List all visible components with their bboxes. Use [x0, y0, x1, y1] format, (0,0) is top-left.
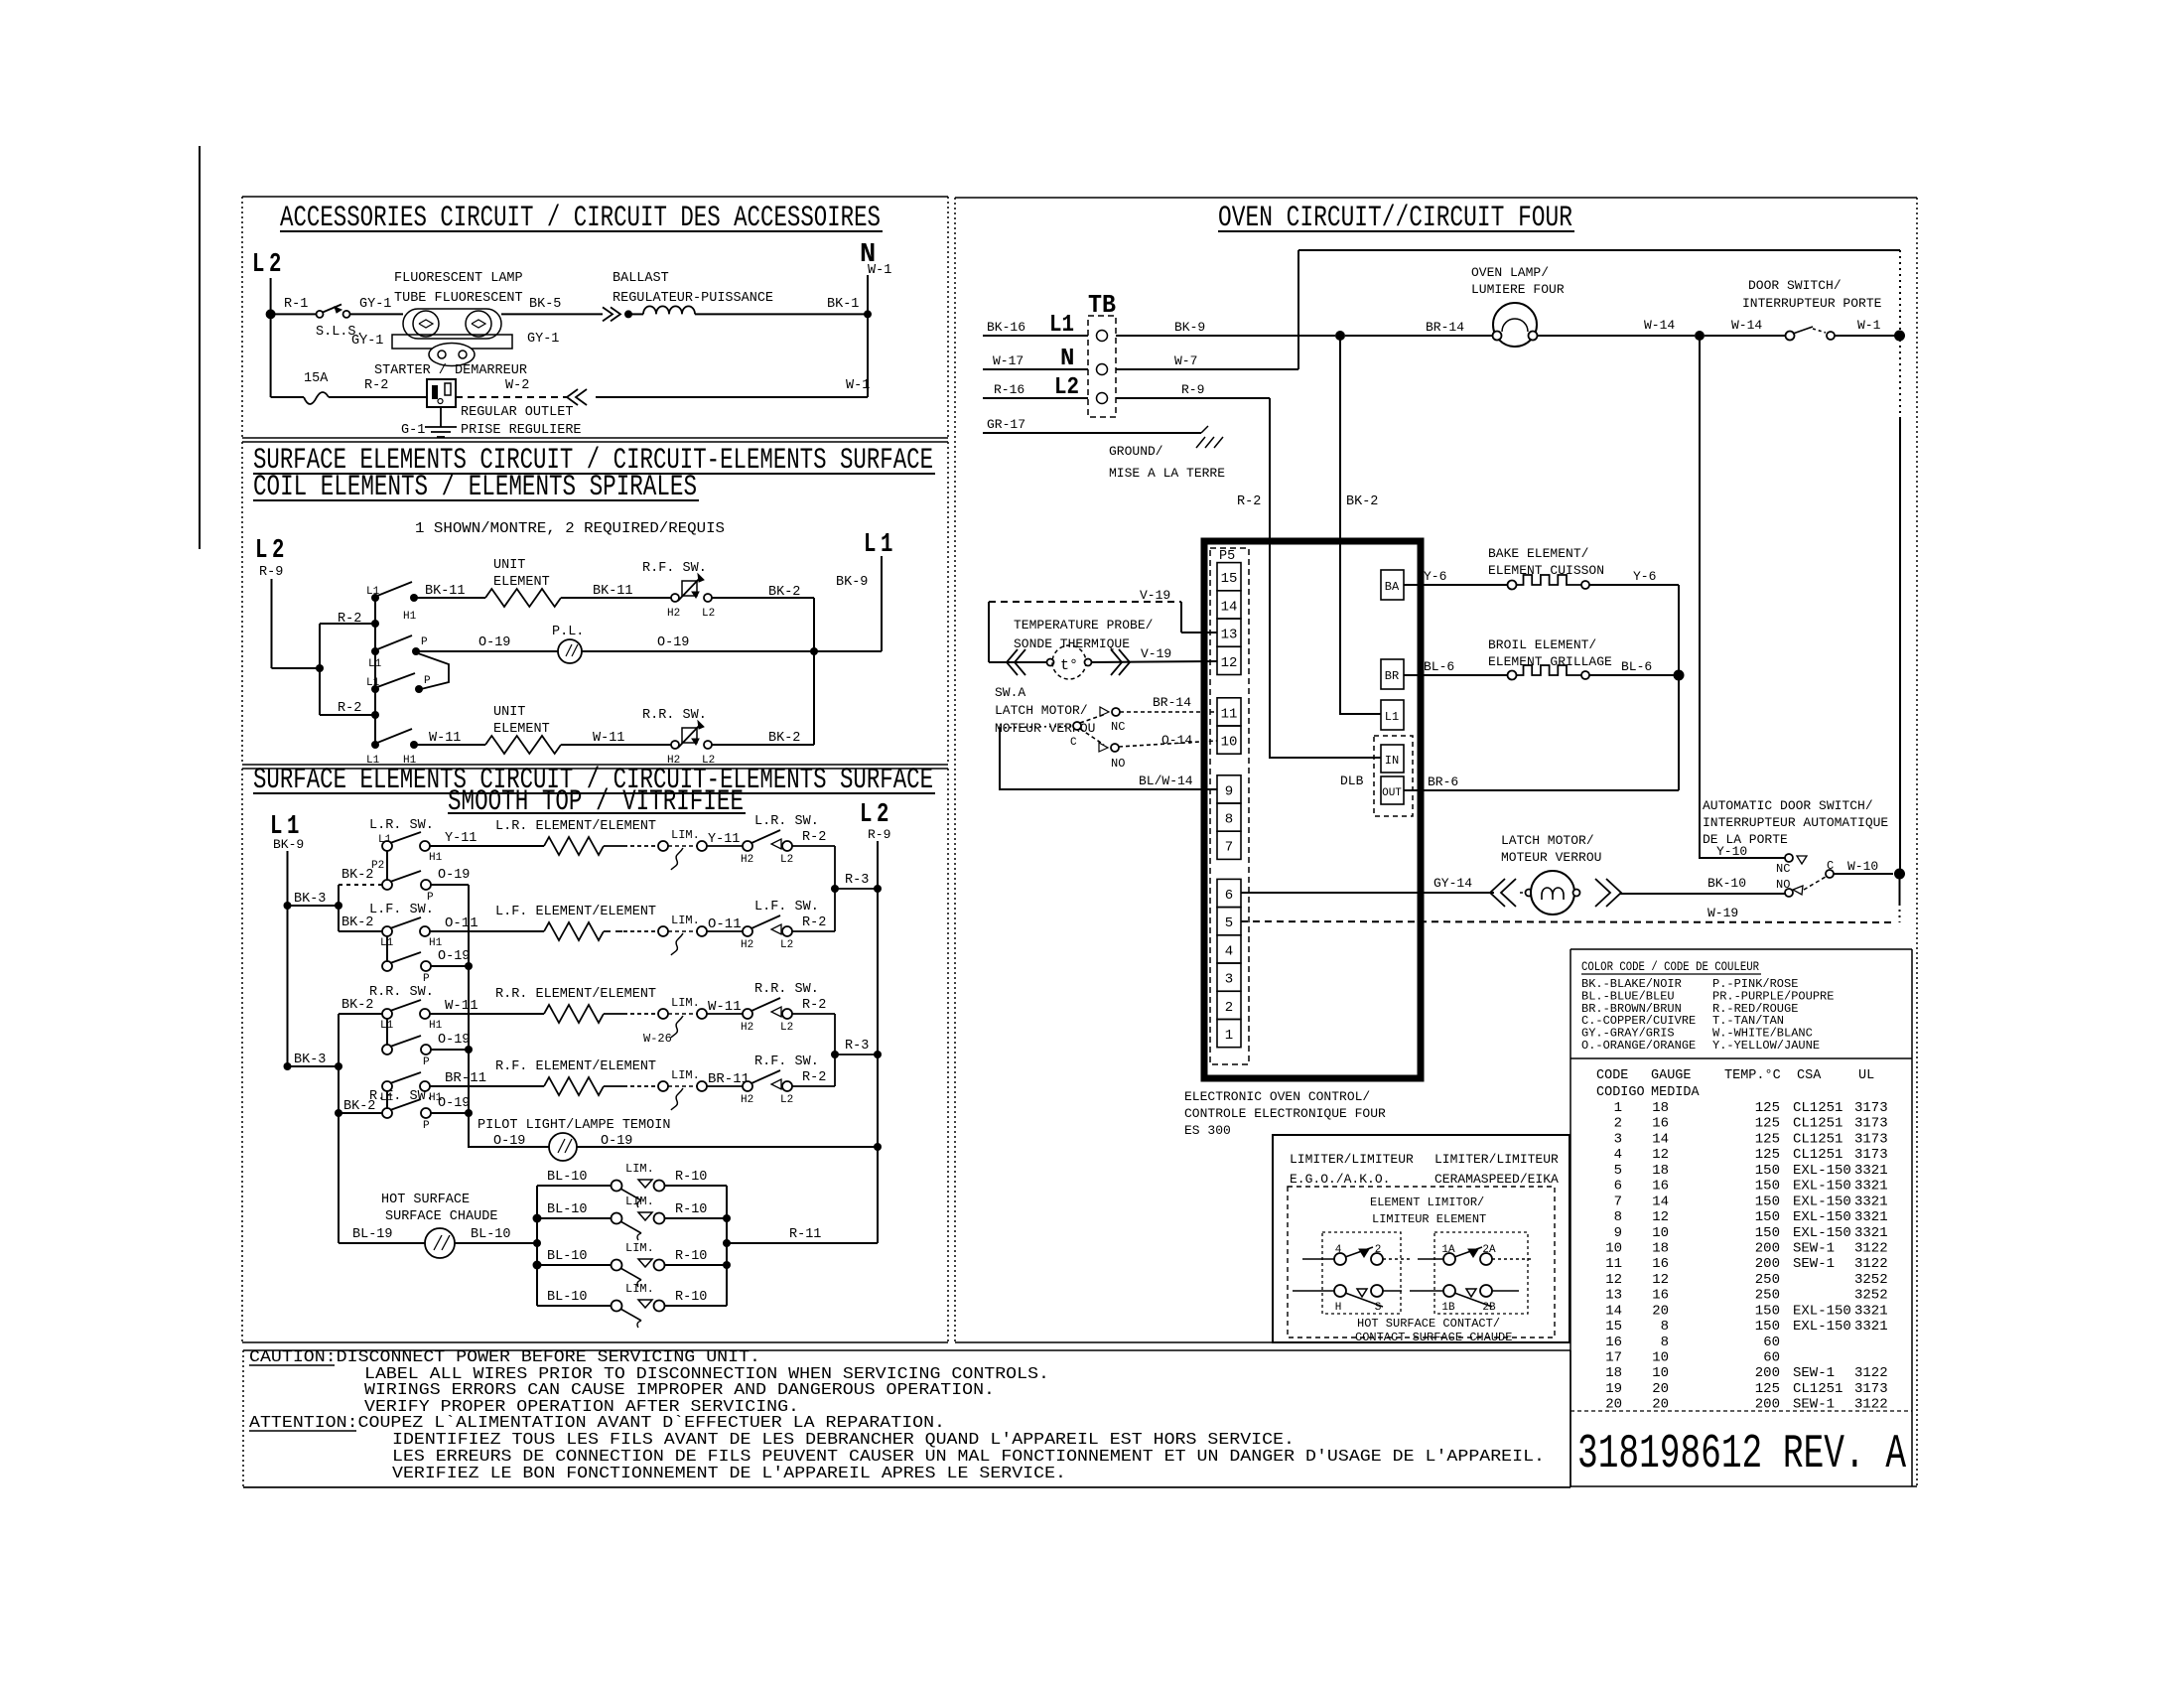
regular outlet box	[427, 379, 456, 407]
svg-text:C: C	[1827, 859, 1834, 873]
junction dot ladder left feed	[533, 1239, 541, 1247]
svg-text:13: 13	[1605, 1288, 1622, 1304]
pin 13 box	[1217, 619, 1241, 646]
limiter R.R.	[658, 1009, 668, 1019]
svg-text:O-19: O-19	[601, 1134, 632, 1149]
junction dot W-10	[1894, 869, 1905, 880]
svg-text:G-1: G-1	[401, 423, 425, 438]
svg-text:L2: L2	[1054, 374, 1079, 401]
svg-text:NC: NC	[1776, 862, 1790, 876]
svg-text:2A: 2A	[1482, 1244, 1496, 1256]
SW.A pivot	[1073, 722, 1081, 730]
wire R-11	[727, 1242, 878, 1244]
wire lamp to arrow	[501, 313, 603, 315]
svg-text:12: 12	[1605, 1272, 1622, 1288]
wire BL-10 to ladder	[455, 1242, 537, 1244]
SW.A blade NO	[1080, 729, 1104, 745]
dashed link to motor	[1520, 892, 1529, 894]
limiter switch EIKA top	[1418, 1258, 1444, 1260]
svg-text:L.R. SW.: L.R. SW.	[369, 818, 434, 833]
svg-text:R-2: R-2	[1237, 494, 1261, 509]
wire L2 bus (smooth)	[877, 841, 879, 1243]
svg-text:SONDE THERMIQUE: SONDE THERMIQUE	[1014, 636, 1130, 651]
wire R.F. BK-2 (at pilot level)	[339, 1112, 382, 1114]
wire main row L2 to switch	[271, 313, 316, 315]
svg-text:3173: 3173	[1854, 1116, 1888, 1132]
underline ATTENTION	[249, 1430, 356, 1432]
svg-text:10: 10	[1652, 1350, 1669, 1366]
wire BA to bake element	[1404, 584, 1508, 586]
svg-text:P: P	[424, 675, 431, 687]
switch R.F. blade	[390, 1072, 421, 1083]
svg-text:Y.-YELLOW/JAUNE: Y.-YELLOW/JAUNE	[1712, 1039, 1820, 1053]
svg-text:R.F. ELEMENT/ELEMENT: R.F. ELEMENT/ELEMENT	[495, 1059, 656, 1074]
svg-text:SEW-1: SEW-1	[1793, 1365, 1835, 1381]
ladder row 4 left wire	[537, 1305, 612, 1307]
svg-text:BK-11: BK-11	[593, 584, 633, 599]
svg-text:3122: 3122	[1854, 1256, 1888, 1272]
svg-text:EXL-150: EXL-150	[1793, 1209, 1851, 1225]
switch R.F. right blade	[751, 1070, 780, 1083]
svg-text:BL-6: BL-6	[1424, 659, 1454, 674]
arrow << (latch)	[1490, 879, 1516, 907]
svg-text:L2: L2	[252, 250, 286, 280]
svg-text:18: 18	[1652, 1163, 1669, 1179]
switch L.R. right L2	[782, 841, 792, 851]
svg-text:20: 20	[1652, 1303, 1669, 1319]
wire bake return drop	[1678, 585, 1680, 675]
wire return to N	[596, 396, 868, 398]
svg-text:REGULATEUR-PUISSANCE: REGULATEUR-PUISSANCE	[613, 291, 773, 306]
switch blade 4	[377, 729, 412, 743]
svg-text:SEW-1: SEW-1	[1793, 1256, 1835, 1272]
svg-text:L1: L1	[366, 677, 380, 689]
pin 6 box	[1217, 879, 1241, 907]
temperature probe	[1047, 659, 1054, 666]
svg-text:L.R. SW.: L.R. SW.	[754, 814, 819, 829]
pilot lamp P.L.	[558, 639, 582, 663]
svg-text:7: 7	[1614, 1194, 1622, 1209]
svg-text:150: 150	[1755, 1163, 1780, 1179]
svg-text:W-2: W-2	[505, 378, 529, 393]
wire W-1 drop	[1899, 417, 1901, 874]
wire O-19 bus	[469, 885, 558, 1147]
switch blade 1	[377, 582, 412, 596]
junction dot after arrow	[624, 310, 632, 318]
svg-text:EXL-150: EXL-150	[1793, 1163, 1851, 1179]
switch L.R. right blade	[751, 830, 780, 843]
svg-text:14: 14	[1652, 1194, 1669, 1209]
wire L.F. pilot to bus	[431, 965, 469, 967]
pin 10 box	[1217, 726, 1241, 754]
svg-text:OVEN CIRCUIT//CIRCUIT FOUR: OVEN CIRCUIT//CIRCUIT FOUR	[1218, 202, 1572, 235]
svg-text:R-10: R-10	[675, 1170, 707, 1185]
arrow << on return wire	[567, 389, 587, 405]
svg-text:O-19: O-19	[493, 1134, 525, 1149]
pin 5 box	[1217, 908, 1241, 935]
wire bus to BL-19 row	[338, 1113, 340, 1243]
svg-text:R.R. SW.: R.R. SW.	[369, 985, 434, 1000]
broil element	[1508, 671, 1517, 680]
svg-text:R-1: R-1	[284, 297, 308, 312]
svg-text:3321: 3321	[1854, 1194, 1888, 1209]
svg-text:R.R. ELEMENT/ELEMENT: R.R. ELEMENT/ELEMENT	[495, 987, 656, 1002]
svg-text:CL1251: CL1251	[1793, 1131, 1843, 1147]
wire R-2 riser	[1270, 398, 1381, 758]
switch R.R. right blade	[751, 998, 780, 1011]
svg-text:1 SHOWN/MONTRE, 2 REQUIRED/REQ: 1 SHOWN/MONTRE, 2 REQUIRED/REQUIS	[415, 520, 725, 537]
TB terminal L1	[1097, 331, 1108, 342]
wire top return run	[1298, 249, 1900, 251]
svg-text:LATCH MOTOR/: LATCH MOTOR/	[1501, 833, 1594, 848]
wire smooth left bus top	[338, 885, 340, 931]
starter ellipse with terminals	[429, 344, 475, 366]
wire pilot lamp to bus	[582, 650, 882, 652]
svg-text:ELECTRONIC OVEN CONTROL/: ELECTRONIC OVEN CONTROL/	[1184, 1089, 1370, 1104]
svg-text:CONTROLE ELECTRONIQUE FOUR: CONTROLE ELECTRONIQUE FOUR	[1184, 1106, 1386, 1121]
svg-text:17: 17	[1605, 1350, 1622, 1366]
svg-text:BK-9: BK-9	[1174, 320, 1205, 335]
svg-text:O-19: O-19	[478, 635, 510, 650]
svg-text:11: 11	[1221, 706, 1238, 722]
svg-text:R.R. SW.: R.R. SW.	[754, 982, 819, 997]
switch L.F. H1 contact	[420, 926, 430, 936]
svg-text:2: 2	[1375, 1244, 1382, 1256]
svg-text:O-11: O-11	[445, 915, 478, 931]
ground symbol (outlet)	[440, 407, 442, 427]
wire R.F. pilot to bus	[431, 1112, 469, 1114]
wire R.R. pilot to bus	[431, 1049, 469, 1051]
wire pilot lamp to L2 bus	[577, 1146, 878, 1148]
switch R.F. H1 contact	[420, 1081, 430, 1091]
junction dot R-3 bottom bus	[874, 1051, 882, 1058]
svg-text:Y-6: Y-6	[1424, 569, 1446, 584]
svg-text:TEMPERATURE PROBE/: TEMPERATURE PROBE/	[1014, 618, 1154, 633]
svg-text:H1: H1	[403, 611, 417, 623]
svg-text:NC: NC	[1111, 720, 1125, 734]
junction dot BK-3 top bus	[335, 902, 342, 910]
svg-text:9: 9	[1614, 1225, 1622, 1241]
wire R-3 stub vertical bottom	[834, 1014, 836, 1086]
svg-text:R-16: R-16	[994, 382, 1024, 397]
svg-text:LIM.: LIM.	[625, 1162, 654, 1176]
switch pivot dot 4 (L1)	[371, 741, 379, 749]
relay box L1	[1381, 700, 1404, 730]
ladder row 3 right wire	[664, 1264, 727, 1266]
svg-text:BK-5: BK-5	[529, 297, 561, 312]
svg-text:LIM.: LIM.	[625, 1195, 654, 1208]
svg-text:BK-2: BK-2	[341, 868, 373, 883]
svg-text:CODIGO: CODIGO	[1596, 1085, 1645, 1100]
svg-text:H2: H2	[741, 854, 753, 866]
svg-text:O-19: O-19	[438, 868, 470, 883]
svg-text:EXL-150: EXL-150	[1793, 1303, 1851, 1319]
fluorescent lamp tube	[403, 309, 501, 339]
junction dot BK-2 riser	[1335, 331, 1345, 341]
element L.F.	[544, 922, 604, 940]
limiter L.R.	[658, 841, 668, 851]
svg-text:L2: L2	[780, 939, 793, 951]
svg-text:L.F. SW.: L.F. SW.	[754, 900, 819, 914]
svg-text:125: 125	[1755, 1381, 1780, 1397]
svg-text:3122: 3122	[1854, 1241, 1888, 1257]
svg-text:BK-2: BK-2	[341, 915, 373, 930]
svg-text:R-2: R-2	[802, 998, 826, 1013]
svg-text:14: 14	[1605, 1303, 1622, 1319]
switch R.F. pilot blade	[390, 1099, 421, 1110]
svg-text:R.F. SW.: R.F. SW.	[369, 1089, 434, 1104]
wire pivot link R.R.	[386, 1019, 388, 1045]
svg-text:AUTOMATIC DOOR SWITCH/: AUTOMATIC DOOR SWITCH/	[1703, 798, 1873, 813]
ladder row 2 right wire	[664, 1217, 727, 1219]
pin 11 box	[1217, 698, 1241, 726]
svg-text:BALLAST: BALLAST	[613, 271, 669, 286]
switch P2 contact	[421, 880, 431, 890]
svg-text:W-19: W-19	[1707, 906, 1738, 920]
svg-text:60: 60	[1763, 1335, 1780, 1350]
wire coil right bus	[813, 598, 815, 745]
element R.R.	[544, 1005, 604, 1023]
ladder row 2 left wire	[537, 1217, 612, 1219]
junction dot L2/main row	[266, 309, 276, 319]
svg-text:W-11: W-11	[593, 731, 624, 746]
wire broil element right	[1589, 674, 1674, 676]
svg-text:318198612 REV. A: 318198612 REV. A	[1577, 1428, 1906, 1481]
svg-text:BL-10: BL-10	[547, 1170, 588, 1185]
svg-text:8: 8	[1614, 1209, 1622, 1225]
switch L.R. right H2	[743, 841, 752, 851]
wire W-10	[1834, 873, 1893, 875]
svg-text:L2: L2	[780, 1094, 793, 1106]
junction dot BK-3 bottom	[284, 1062, 292, 1070]
pin 4 box	[1217, 935, 1241, 963]
triangle R.R. right	[771, 1007, 781, 1017]
svg-text:3321: 3321	[1854, 1179, 1888, 1195]
wire probe row right	[1092, 661, 1217, 662]
svg-text:BK-11: BK-11	[425, 584, 466, 599]
svg-text:LIM.: LIM.	[671, 828, 700, 842]
contact dot H1 top	[410, 594, 418, 602]
svg-text:C: C	[1070, 737, 1077, 749]
svg-text:BA: BA	[1385, 580, 1400, 594]
svg-text:L2: L2	[702, 608, 715, 620]
svg-text:BL-6: BL-6	[1621, 659, 1652, 674]
SW.A blade NC	[1080, 714, 1106, 723]
svg-text:BAKE ELEMENT/: BAKE ELEMENT/	[1488, 546, 1589, 561]
svg-text:GY-1: GY-1	[359, 297, 391, 312]
dashed wire W-19	[1241, 921, 1896, 922]
wire H1 to resistor (top)	[414, 597, 485, 599]
svg-text:R-10: R-10	[675, 1249, 707, 1264]
svg-text:EXL-150: EXL-150	[1793, 1179, 1851, 1195]
relay box IN	[1381, 745, 1404, 773]
svg-text:CL1251: CL1251	[1793, 1100, 1843, 1116]
wire coil left bus vertical	[319, 624, 321, 715]
switch R.R. H1 contact	[420, 1009, 430, 1019]
switch R.F. pilot pivot	[382, 1108, 392, 1118]
svg-text:L1: L1	[366, 586, 380, 598]
svg-text:R-2: R-2	[364, 378, 388, 393]
svg-text:W-26: W-26	[643, 1032, 672, 1046]
svg-text:NO: NO	[1776, 878, 1790, 892]
svg-text:LIMITER/LIMITEUR: LIMITER/LIMITEUR	[1290, 1152, 1414, 1167]
switch pivot dot 2	[371, 647, 379, 655]
svg-text:GR-17: GR-17	[987, 417, 1025, 432]
svg-text:H2: H2	[741, 939, 753, 951]
svg-text:ELEMENT: ELEMENT	[493, 722, 550, 737]
contact dot P (sw3)	[415, 685, 423, 693]
ladder row 4 right wire	[664, 1305, 727, 1307]
svg-text:8: 8	[1225, 812, 1233, 828]
svg-text:GROUND/: GROUND/	[1109, 444, 1163, 459]
ladder row 2 limiter switch	[612, 1213, 622, 1224]
wire R-3 stub vertical top	[834, 846, 836, 931]
svg-text:H1: H1	[429, 937, 443, 949]
svg-text:TB: TB	[1088, 290, 1116, 320]
limiter L.F.	[658, 926, 668, 936]
switch R.F. pivot	[382, 1081, 392, 1091]
svg-text:COIL ELEMENTS / ELEMENTS SPIRA: COIL ELEMENTS / ELEMENTS SPIRALES	[253, 471, 697, 504]
svg-text:8: 8	[1661, 1335, 1669, 1350]
wire element return drop	[1678, 675, 1680, 790]
svg-text:SURFACE CHAUDE: SURFACE CHAUDE	[385, 1209, 497, 1224]
wire N vertical	[867, 275, 869, 397]
switch R.R. blade	[390, 1000, 421, 1011]
svg-text:VERIFIEZ LE BON FONCTIONNEMENT: VERIFIEZ LE BON FONCTIONNEMENT DE L'APPA…	[392, 1465, 1066, 1483]
wire R.R. BK-2	[339, 1013, 382, 1015]
svg-text:10: 10	[1652, 1365, 1669, 1381]
junction dot R-3 top	[831, 885, 839, 893]
accessories box border	[242, 196, 948, 198]
junction dot ladder right feed	[723, 1239, 731, 1247]
svg-text:BR-14: BR-14	[1426, 320, 1464, 335]
svg-text:125: 125	[1755, 1100, 1780, 1116]
svg-text:CSA: CSA	[1797, 1068, 1822, 1083]
svg-text:200: 200	[1755, 1365, 1780, 1381]
svg-text:UL: UL	[1858, 1068, 1874, 1083]
svg-text:20: 20	[1652, 1381, 1669, 1397]
wire lower row left segment	[271, 396, 304, 398]
junction dot O-19 LF	[465, 962, 473, 970]
svg-text:LIM.: LIM.	[625, 1241, 654, 1255]
lamp holder rectangle	[392, 335, 512, 349]
svg-text:3321: 3321	[1854, 1303, 1888, 1319]
wire L.F. BK-2	[339, 930, 382, 932]
svg-text:5: 5	[1614, 1163, 1622, 1179]
wire R-3 stub top	[835, 888, 878, 890]
wire ballast to N	[695, 313, 868, 315]
svg-text:19: 19	[1605, 1381, 1622, 1397]
switch R.R. pilot pivot	[382, 1045, 392, 1055]
svg-text:STARTER / DEMARREUR: STARTER / DEMARREUR	[374, 363, 527, 378]
svg-text:18: 18	[1652, 1241, 1669, 1257]
svg-text:16: 16	[1652, 1179, 1669, 1195]
svg-text:3252: 3252	[1854, 1272, 1888, 1288]
ladder row 1 left wire	[537, 1185, 612, 1187]
pin 9 box	[1217, 775, 1241, 803]
svg-text:Y-10: Y-10	[1716, 844, 1747, 859]
svg-text:W-1: W-1	[868, 263, 891, 278]
wire arrow to ballast	[628, 313, 643, 315]
wire R-2 stub bottom	[320, 714, 375, 716]
svg-text:CL1251: CL1251	[1793, 1116, 1843, 1132]
svg-text:O-14: O-14	[1161, 733, 1192, 748]
svg-text:L.R. ELEMENT/ELEMENT: L.R. ELEMENT/ELEMENT	[495, 819, 656, 834]
switch R.R. pivot	[382, 1009, 392, 1019]
svg-text:t°: t°	[1060, 657, 1078, 674]
svg-text:OVEN LAMP/: OVEN LAMP/	[1471, 265, 1549, 280]
junction dot pilot/L2 bus	[874, 1143, 882, 1151]
wire limiter to H2 L.R.	[707, 845, 743, 847]
svg-text:P.L.: P.L.	[552, 625, 584, 639]
svg-text:3173: 3173	[1854, 1100, 1888, 1116]
wire L.F. L2 to corner	[792, 930, 835, 932]
svg-text:LUMIERE FOUR: LUMIERE FOUR	[1471, 282, 1565, 297]
svg-text:Y-6: Y-6	[1633, 569, 1656, 584]
switch pivot dot 1 (L1)	[371, 594, 379, 602]
wire W-14 to door switch	[1705, 335, 1785, 337]
svg-text:15A: 15A	[304, 371, 329, 386]
svg-text:200: 200	[1755, 1397, 1780, 1413]
wire P2 link	[386, 851, 388, 880]
wire pivot link R.F.	[386, 1091, 388, 1108]
wire BK-3 bottom	[288, 1065, 340, 1067]
contact dot P (sw2)	[412, 647, 420, 655]
junction dot N vertical	[864, 310, 872, 318]
svg-text:ELEMENT GRILLAGE: ELEMENT GRILLAGE	[1488, 654, 1612, 669]
svg-text:N: N	[1060, 346, 1074, 372]
limiter R.F.	[658, 1081, 668, 1091]
svg-text:ES 300: ES 300	[1184, 1123, 1231, 1138]
wire R-2 stub top	[320, 623, 375, 625]
svg-text:R-2: R-2	[802, 1070, 826, 1085]
auto door switch blade	[1804, 877, 1826, 890]
svg-text:LIM.: LIM.	[625, 1282, 654, 1296]
wire R-3 stub bottom	[835, 1054, 878, 1055]
switch L.R. H1 contact	[420, 841, 430, 851]
switch R.R. right H2	[743, 1009, 752, 1019]
svg-text:FLUORESCENT LAMP: FLUORESCENT LAMP	[394, 271, 523, 286]
junction dot R-3 bottom	[831, 1051, 839, 1058]
wire probe riser	[1180, 602, 1182, 633]
svg-text:BROIL ELEMENT/: BROIL ELEMENT/	[1488, 637, 1596, 652]
dashed divider above part number	[1570, 1410, 1912, 1412]
wire R.R. element to limiter	[604, 1013, 623, 1015]
wire L.F. H1 to element	[430, 930, 544, 932]
wire L.R. L2 to corner	[792, 845, 835, 847]
ground symbol (oven)	[1196, 426, 1223, 448]
fuse 15A	[304, 392, 329, 404]
wire probe row left	[989, 661, 1046, 663]
svg-text:BK-3: BK-3	[294, 892, 326, 907]
svg-text:15: 15	[1605, 1319, 1622, 1335]
svg-text:R-11: R-11	[789, 1227, 821, 1242]
svg-text:2: 2	[1614, 1116, 1622, 1132]
svg-text:1B: 1B	[1441, 1302, 1455, 1314]
wire W-1 below dot	[1899, 874, 1901, 904]
switch L.F. pivot	[382, 926, 392, 936]
dashed wire BK-2 to P2	[339, 884, 382, 886]
wire P to pilot lamp	[418, 650, 558, 652]
wire W-7 riser	[1297, 250, 1299, 369]
svg-text:16: 16	[1652, 1116, 1669, 1132]
svg-text:20: 20	[1652, 1397, 1669, 1413]
auto door switch NC	[1785, 854, 1793, 862]
svg-text:EXL-150: EXL-150	[1793, 1225, 1851, 1241]
svg-text:BL-19: BL-19	[352, 1227, 393, 1242]
svg-text:P: P	[423, 1056, 430, 1068]
smooth top box border	[242, 768, 948, 770]
